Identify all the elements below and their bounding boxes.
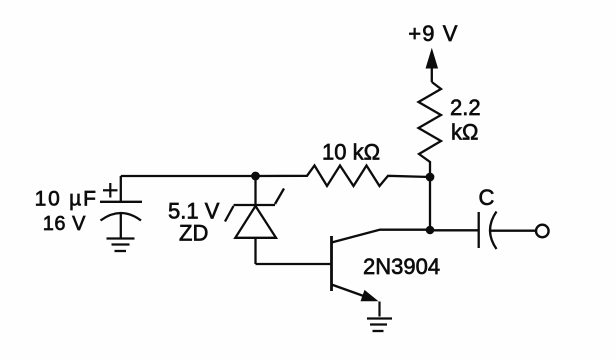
svg-text:10 µF: 10 µF [35,188,98,211]
ground symbol below Q1 emitter [367,319,392,332]
capacitor C1 10 uF top stem [120,176,122,202]
transistor Q1 base bar [330,236,333,291]
resistor R1 2.2 kOhm [419,82,442,173]
node B junction dot (R1/R2 junction) [426,173,435,182]
zener diode D1 cathode stem [254,176,256,205]
wire: top rail from C1 to zener node A [121,175,256,177]
resistor R2 10 kOhm with leads [256,166,430,187]
svg-text:+9 V: +9 V [408,21,458,46]
svg-text:kΩ: kΩ [451,120,478,145]
wire: node B down to node C [429,177,431,230]
svg-text:ZD: ZD [179,221,208,246]
output terminal circle [536,225,549,238]
svg-text:C: C [479,185,495,210]
svg-text:2.2: 2.2 [450,95,481,120]
transistor Q1 emitter lead with arrow [332,285,379,302]
wire: zener anode to Q1 base [256,263,332,265]
transistor Q1 collector lead [332,230,431,243]
capacitor C right curved plate [490,212,497,250]
capacitor C1 top plate [100,201,142,203]
svg-text:2N3904: 2N3904 [363,254,440,279]
ground symbol below C1 [107,239,135,252]
zener diode D1 anode triangle [235,206,276,238]
node A junction dot (zener top) [251,172,260,181]
svg-text:10 kΩ: 10 kΩ [322,140,380,165]
svg-text:16 V: 16 V [43,213,86,235]
zener diode D1 cathode bar with zener wings [225,189,284,222]
capacitor C left plate [478,212,480,248]
wire: capacitor C to output terminal [491,230,537,232]
zener diode D1 anode stem [254,238,256,264]
wire: node C to output capacitor C [430,229,478,231]
capacitor C1 bottom stem [120,213,122,238]
label C1 polarity plus [103,183,118,198]
node C junction dot (collector/output) [426,226,435,235]
wire: Q1 emitter to ground [378,302,380,317]
capacitor C1 bottom curved plate [101,213,142,221]
power arrow +9 V supply [426,50,437,83]
